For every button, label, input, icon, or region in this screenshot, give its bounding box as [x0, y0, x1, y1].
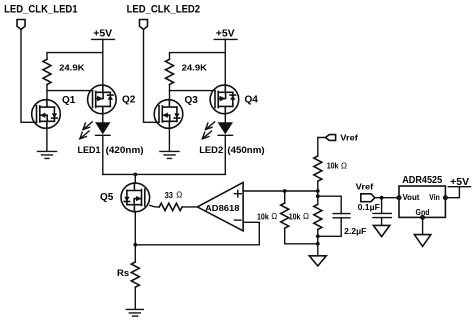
capacitor C1 0.1uF — [373, 213, 391, 217]
ground (Q1 source) — [38, 128, 57, 158]
wire R1 bottom to Q1 drain — [46, 85, 48, 100]
svg-text:Q2: Q2 — [122, 95, 136, 106]
wire op-amp - input feedback to Rs node — [135, 222, 259, 245]
junction (Q5 source / Rs / feedback) — [133, 243, 137, 247]
wire R4 bottom to ground node — [285, 228, 318, 244]
junction (+ input / R3 bottom) — [316, 189, 320, 193]
transistor Q1 — [32, 100, 61, 129]
svg-text:33: 33 — [165, 190, 174, 200]
ground (Q3 source) — [160, 128, 179, 158]
pin Vref (divider) — [326, 135, 336, 141]
op-amp - input mark — [235, 219, 241, 221]
wire R5 bottom to ground — [317, 230, 319, 256]
svg-text:Vin: Vin — [429, 193, 440, 202]
wire LED bus — [103, 173, 226, 175]
svg-text:Ω: Ω — [176, 191, 182, 200]
wire Rs to ground — [134, 287, 136, 309]
wire Q5 gate to R33 — [150, 205, 160, 207]
svg-text:(450nm): (450nm) — [227, 145, 264, 156]
wire pin1 to Q1 gate — [21, 29, 37, 122]
wire Vref pin to Vout — [375, 197, 397, 199]
pin circle Gnd — [421, 216, 424, 219]
capacitor C2 2.2uF — [333, 214, 350, 218]
junction (C2 return) — [316, 234, 320, 238]
svg-text:10k: 10k — [257, 211, 269, 221]
svg-text:ADR4525: ADR4525 — [402, 175, 443, 186]
resistor R4 10k (left) — [284, 191, 286, 203]
ground (divider, triangle) — [309, 256, 326, 266]
svg-text:Vout: Vout — [403, 193, 420, 202]
svg-text:10k: 10k — [289, 211, 301, 221]
wire R33 to op-amp output — [182, 206, 197, 208]
svg-text:Q4: Q4 — [245, 95, 259, 106]
junction (0.1uF tap) — [380, 196, 384, 200]
wire node to Q2 gate — [47, 90, 93, 92]
svg-text:Vref: Vref — [356, 182, 374, 192]
svg-text:Vref: Vref — [340, 133, 358, 143]
wire +5V to Q2 source — [102, 39, 104, 85]
wire bus to Q5 drain — [134, 174, 136, 182]
wire +5V to Q4 source — [224, 39, 226, 85]
resistor R2 24.9K — [166, 59, 174, 84]
pin Vref (ADR4525 output) — [361, 194, 375, 202]
svg-text:Ω: Ω — [271, 212, 277, 221]
wire R3 bottom to node — [317, 181, 319, 196]
svg-text:(420nm): (420nm) — [106, 145, 144, 156]
LED LED2 — [218, 122, 233, 134]
wire op-amp + input to divider node — [243, 190, 318, 192]
svg-text:24.9K: 24.9K — [182, 62, 208, 72]
transistor Q3 — [154, 100, 183, 129]
resistor R3 10k — [314, 156, 322, 181]
IC U2 ADR4525 box — [399, 186, 445, 217]
transistor Q4 — [210, 85, 239, 114]
transistor Q2 — [88, 85, 117, 114]
svg-text:10k: 10k — [327, 161, 339, 171]
wire +5V to Vin — [448, 187, 460, 198]
pin circle Vin — [444, 196, 447, 199]
svg-text:Ω: Ω — [303, 212, 309, 221]
svg-text:Q3: Q3 — [185, 95, 199, 106]
ground (Rs) — [126, 309, 143, 316]
wire Vref pin to R3 — [318, 138, 326, 157]
svg-text:2.2µF: 2.2µF — [344, 226, 366, 236]
transistor Q5 — [121, 183, 150, 212]
junction (+ input / R4 top) — [283, 189, 287, 193]
wire C2 bottom to ground node — [318, 218, 341, 237]
wire Q4 drain to LED2 — [224, 114, 226, 123]
wire node to Rs — [134, 245, 136, 262]
svg-text:+5V: +5V — [216, 28, 235, 40]
ground (ADR4525 Gnd, triangle) — [414, 235, 430, 247]
svg-text:Rs: Rs — [117, 268, 129, 279]
wire Q2 drain to LED1 — [102, 114, 104, 123]
svg-text:LED_CLK_LED2: LED_CLK_LED2 — [127, 4, 201, 16]
svg-text:AD8618: AD8618 — [205, 203, 240, 213]
svg-text:LED1: LED1 — [78, 145, 102, 156]
svg-text:Q1: Q1 — [62, 95, 76, 106]
pin LED_CLK_LED2 — [140, 20, 148, 30]
junction (cap branch) — [316, 194, 320, 198]
resistor R5 10k (right) — [317, 196, 319, 204]
wire junction to C1 — [381, 198, 383, 214]
wire node to Q4 gate — [170, 90, 216, 92]
svg-text:+5V: +5V — [93, 28, 112, 40]
LED1 emission arrows — [83, 122, 92, 130]
op-amp + input mark — [234, 190, 241, 197]
resistor Rs — [131, 262, 139, 287]
resistor R1 24.9K — [43, 59, 51, 84]
svg-text:24.9K: 24.9K — [59, 62, 85, 72]
junction (bus to Q5 drain) — [133, 173, 137, 177]
junction (R4 return) — [316, 242, 320, 246]
svg-text:LED2: LED2 — [199, 145, 223, 156]
LED LED1 — [95, 122, 110, 134]
pin LED_CLK_LED1 — [17, 20, 25, 30]
op-amp U1 AD8618 — [197, 182, 243, 230]
svg-text:Q5: Q5 — [100, 192, 114, 203]
svg-text:LED_CLK_LED1: LED_CLK_LED1 — [4, 4, 78, 16]
LED2 emission arrows — [206, 122, 215, 130]
wire R2 bottom to Q3 drain — [169, 85, 171, 100]
wire Q5 source to node — [134, 212, 136, 245]
wire C1 to ground — [381, 218, 383, 226]
wire +5V branch to R2 top — [170, 53, 226, 60]
resistor 33 ohm — [159, 203, 182, 210]
wire Gnd pin to ground — [422, 220, 424, 235]
wire +5V branch to R1 top — [47, 53, 103, 60]
wire LED2 to bus — [224, 135, 226, 174]
pin circle Vout — [397, 196, 400, 199]
wire node to C2 top — [318, 196, 341, 213]
wire LED1 to bus — [102, 135, 104, 174]
svg-text:Ω: Ω — [341, 162, 347, 171]
wire pin2 to Q3 gate — [144, 29, 160, 122]
svg-text:0.1µF: 0.1µF — [358, 202, 380, 212]
ground (C1, triangle) — [373, 225, 389, 236]
